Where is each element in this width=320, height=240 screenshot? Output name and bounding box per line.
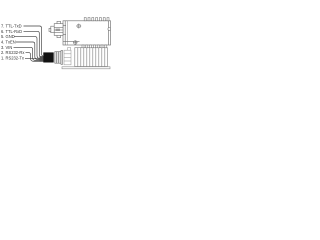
fins on bottom edge (top view)	[82, 45, 107, 48]
wire leader pin6	[24, 31, 45, 57]
device body outline (top view)	[63, 21, 111, 45]
connector plug (black, side view)	[43, 52, 53, 62]
wire leader pin5	[14, 37, 44, 59]
svg-text:6. TTL-RxD: 6. TTL-RxD	[1, 29, 22, 34]
device socket stack (side view)	[64, 48, 71, 65]
screw hole top-left (top view)	[76, 24, 81, 29]
connector collar (ribbed)	[55, 50, 63, 64]
screw hole bottom-left (top view)	[73, 40, 77, 44]
svg-text:5. GND: 5. GND	[1, 34, 15, 39]
heatsink fins (side view)	[75, 48, 108, 67]
inner shelf line (top view)	[63, 40, 80, 42]
svg-text:1. RS232-Tx: 1. RS232-Tx	[1, 55, 24, 60]
base plate (side view)	[62, 67, 110, 69]
socket on left side (top view)	[49, 21, 66, 37]
wire leader pin1	[25, 57, 43, 59]
fins on top edge (top view)	[84, 18, 109, 21]
cable bundle into plug	[40, 56, 44, 62]
svg-text:2. RS232-Rx: 2. RS232-Rx	[1, 50, 24, 55]
wire leader pin4	[16, 42, 44, 60]
svg-text:4. TxEN: 4. TxEN	[1, 40, 16, 45]
wire leader pin7	[24, 26, 46, 57]
svg-text:7. TTL-TxD: 7. TTL-TxD	[1, 24, 22, 29]
wire leader pin3	[14, 47, 45, 60]
wire leader pin2	[26, 53, 45, 62]
screw hole right edge (top view)	[108, 28, 111, 31]
svg-text:3. VIN: 3. VIN	[1, 45, 12, 50]
